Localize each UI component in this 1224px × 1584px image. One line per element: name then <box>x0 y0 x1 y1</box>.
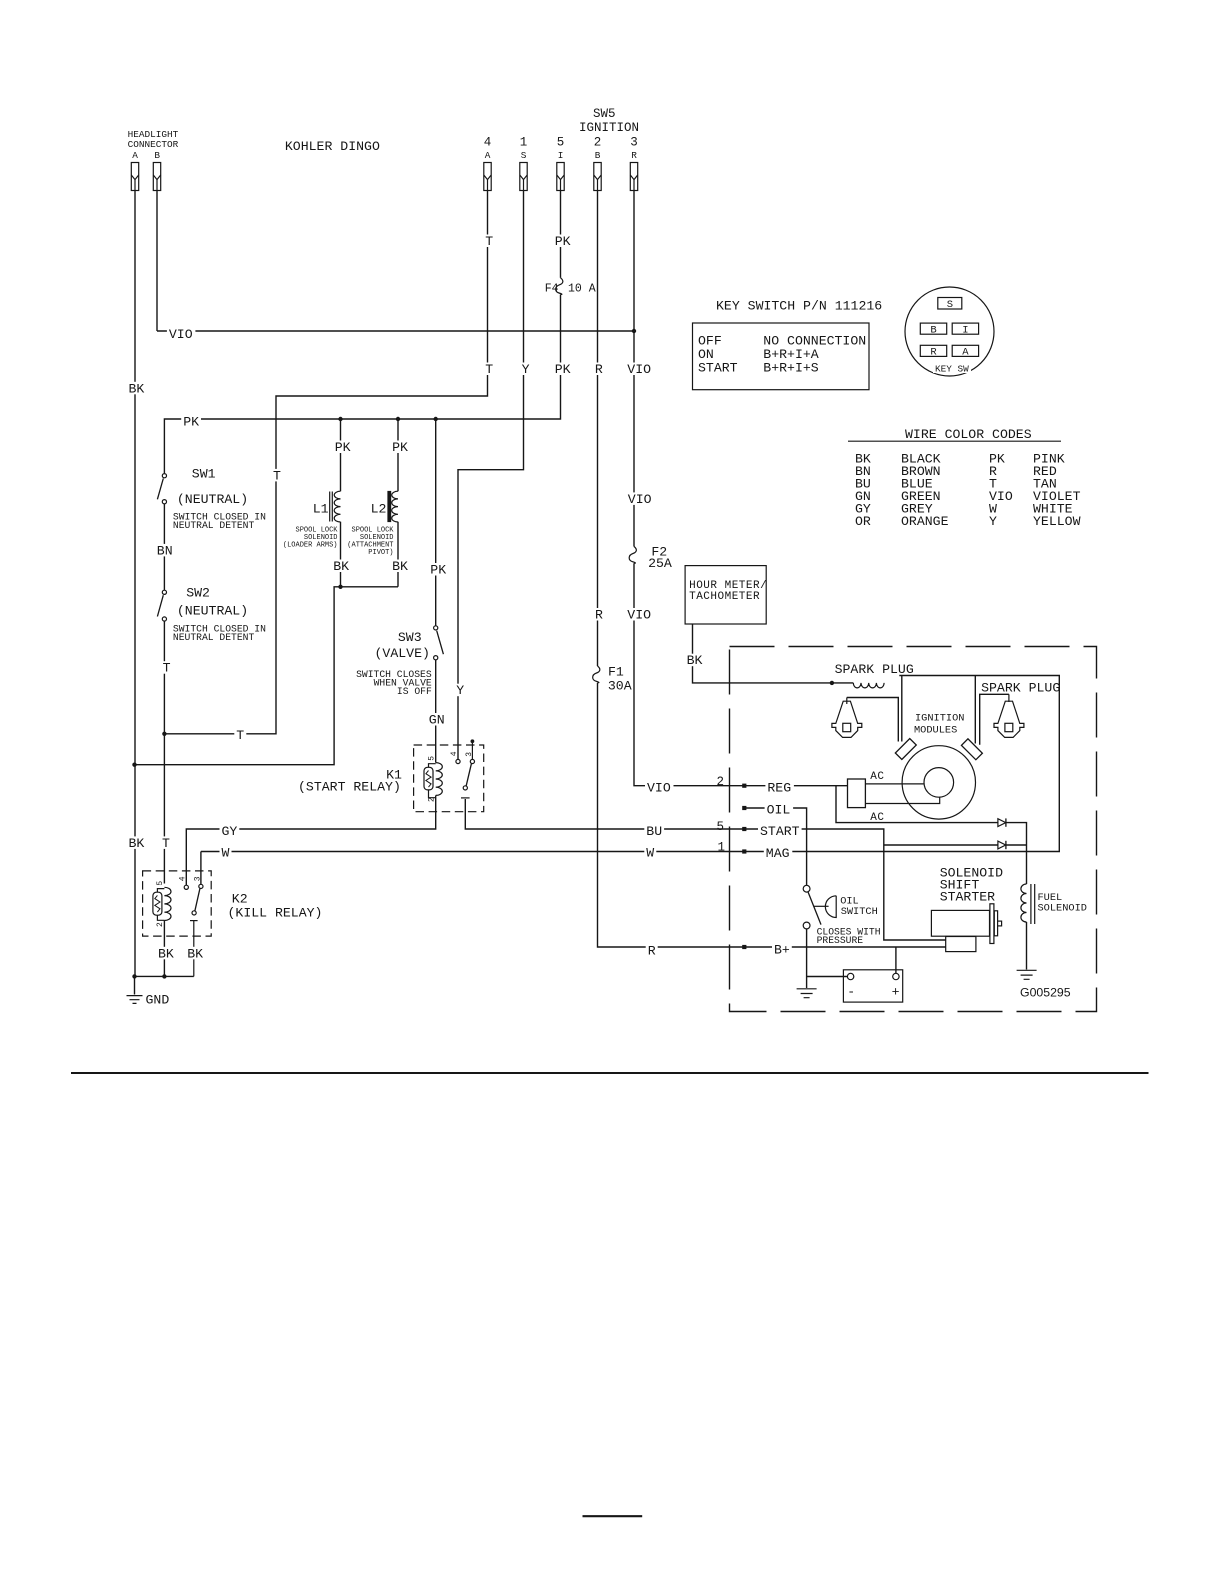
svg-text:T: T <box>485 362 493 377</box>
switch SW3 (valve) <box>434 626 444 660</box>
wire VIO horizontal to key pin 3 <box>157 330 634 332</box>
label T (K2 coil wire) <box>160 836 172 851</box>
wire BK from headlight pin A down to ground bus <box>134 191 136 977</box>
label VIO (pin3 wire lower) <box>625 608 654 623</box>
label PK (pin5 wire upper) <box>553 234 573 249</box>
svg-text:(VALVE): (VALVE) <box>375 646 430 661</box>
svg-text:MODULES: MODULES <box>914 725 957 737</box>
svg-text:Y: Y <box>456 683 464 698</box>
spark plug left symbol <box>832 698 862 738</box>
footer mark <box>583 1515 643 1517</box>
svg-text:BK: BK <box>158 946 174 961</box>
svg-text:BU: BU <box>646 824 662 839</box>
fuse F4 10A <box>556 278 563 295</box>
svg-text:OIL: OIL <box>767 802 791 817</box>
label PK (pk bus left) <box>181 415 201 430</box>
svg-text:VIO: VIO <box>647 781 671 796</box>
ground (battery side) <box>797 989 817 998</box>
svg-text:PK: PK <box>183 415 199 430</box>
svg-text:W: W <box>222 845 230 860</box>
svg-text:VIO: VIO <box>628 492 652 507</box>
relay K2 coil <box>153 887 171 920</box>
svg-text:R: R <box>595 608 603 623</box>
node BK junction on headlight wire <box>132 763 136 767</box>
label BK (L2 bottom) <box>390 559 410 574</box>
svg-text:5: 5 <box>156 881 165 886</box>
svg-text:S: S <box>521 150 527 161</box>
svg-text:PK: PK <box>430 563 446 578</box>
svg-text:S: S <box>947 299 953 311</box>
svg-text:B: B <box>154 150 160 161</box>
svg-text:YELLOW: YELLOW <box>1033 514 1081 529</box>
terminal pad START <box>742 827 746 831</box>
fuse F2 25A <box>629 547 636 564</box>
svg-text:AC: AC <box>870 812 884 824</box>
wire GY from K2 pin 4 to K1 coil <box>186 796 435 886</box>
switch SW2 (neutral) <box>157 590 166 621</box>
wire VIO from SW5 pin 3 <box>633 191 635 547</box>
wire PK from SW5 pin 5 (upper part) <box>560 191 562 278</box>
label T (SW2 lower wire) <box>161 661 173 676</box>
svg-text:3: 3 <box>465 752 474 757</box>
label START <box>758 824 802 839</box>
relay K1 (start relay) dashed box <box>414 745 484 812</box>
label T (row2) <box>483 362 495 377</box>
svg-text:+: + <box>892 985 900 1000</box>
label VIO (headlight B wire) <box>167 327 196 342</box>
svg-text:IS OFF: IS OFF <box>397 686 432 697</box>
key switch table box <box>693 323 870 390</box>
wire AC lower <box>865 797 939 803</box>
terminal pad B+ <box>742 945 746 949</box>
svg-text:R: R <box>631 150 637 161</box>
label W (left) <box>220 845 232 860</box>
label T (vertical T wire) <box>271 468 283 483</box>
connector pin 1/S (SW5) <box>520 163 527 191</box>
svg-text:NEUTRAL DETENT: NEUTRAL DETENT <box>173 520 255 531</box>
label BK (hour meter wire) <box>685 653 705 668</box>
svg-text:CONNECTOR: CONNECTOR <box>128 139 179 150</box>
relay K2 switch <box>184 884 203 976</box>
wire stub to ignition coil <box>832 682 853 684</box>
svg-text:W: W <box>646 846 654 861</box>
svg-text:VIO: VIO <box>627 608 651 623</box>
connector pin B (headlight) <box>153 163 160 191</box>
label BU <box>644 824 664 839</box>
fuse F1 30A <box>593 666 600 683</box>
svg-text:PK: PK <box>555 362 571 377</box>
svg-text:G005295: G005295 <box>1020 986 1071 1000</box>
label W (right) <box>644 846 656 861</box>
wire Y from SW5 pin 1 <box>458 191 524 760</box>
svg-text:(START RELAY): (START RELAY) <box>298 780 401 795</box>
svg-text:10 A: 10 A <box>568 283 596 296</box>
svg-text:R: R <box>930 347 937 359</box>
wire from headlight pin B down <box>156 191 158 332</box>
flywheel inner circle <box>924 768 954 798</box>
svg-text:(NEUTRAL): (NEUTRAL) <box>177 492 248 507</box>
relay K1 pin 1 terminal dot <box>471 739 475 743</box>
wire VIO below fuse F2 to REG <box>634 563 848 786</box>
svg-text:R: R <box>595 362 603 377</box>
connector pin 5/I (SW5) <box>557 163 564 191</box>
label T (pin4 wire upper) <box>483 234 495 249</box>
ground GND <box>127 996 143 1004</box>
svg-text:PK: PK <box>555 234 571 249</box>
svg-text:BK: BK <box>129 836 145 851</box>
node PK bus / L1 junction <box>338 417 342 421</box>
regulator block <box>848 779 866 808</box>
key terminal S <box>938 298 962 310</box>
svg-text:BN: BN <box>157 543 173 558</box>
wire battery positive <box>895 947 897 973</box>
svg-text:A: A <box>485 150 491 161</box>
svg-text:SW5: SW5 <box>593 107 616 121</box>
svg-text:5: 5 <box>717 820 725 834</box>
label B+ <box>772 943 792 958</box>
label OIL <box>765 802 794 817</box>
engine dashed boundary box <box>730 647 1097 1012</box>
label R (row2) <box>593 362 605 377</box>
switch SW1 (neutral) <box>157 474 166 504</box>
svg-text:KEY SWITCH P/N 111216: KEY SWITCH P/N 111216 <box>716 298 882 313</box>
key terminal I <box>952 323 978 334</box>
svg-text:25A: 25A <box>648 556 672 571</box>
svg-text:30A: 30A <box>608 679 632 694</box>
node PK bus / SW3 junction <box>434 417 438 421</box>
node T junction <box>162 732 166 736</box>
svg-text:SWITCH: SWITCH <box>841 906 878 918</box>
svg-text:BK: BK <box>687 653 703 668</box>
svg-text:5: 5 <box>428 756 437 761</box>
svg-text:GN: GN <box>429 713 445 728</box>
ignition kill coil <box>853 683 884 688</box>
label R (B+ wire) <box>646 944 658 959</box>
wire PK below fuse F4 to PK bus <box>164 295 560 474</box>
wire L1 leads <box>340 419 342 587</box>
svg-text:GY: GY <box>222 824 238 839</box>
wire oil switch to ground / battery minus <box>807 929 848 988</box>
wire spark plug left to module <box>847 698 899 742</box>
svg-text:START: START <box>760 824 800 839</box>
svg-text:BK: BK <box>129 381 145 396</box>
label VIO (REG wire) <box>645 781 674 796</box>
svg-text:PK: PK <box>392 440 408 455</box>
diode D1 <box>998 818 1006 826</box>
svg-text:B+R+I+S: B+R+I+S <box>763 361 818 376</box>
terminal pad OIL <box>742 806 746 810</box>
ignition module right (diamond) <box>961 739 982 760</box>
svg-text:5: 5 <box>557 136 565 150</box>
svg-text:GND: GND <box>146 993 170 1008</box>
label VIO (pin3 wire mid) <box>626 492 655 507</box>
svg-text:BK: BK <box>187 946 203 961</box>
svg-text:IGNITION: IGNITION <box>579 121 639 135</box>
svg-text:I: I <box>962 324 968 336</box>
label PK (row2) <box>553 362 573 377</box>
label REG <box>765 781 794 796</box>
starter motor body <box>931 904 1001 952</box>
connector pin 4/A (SW5) <box>484 163 491 191</box>
ground (fuel solenoid) <box>1017 970 1037 979</box>
svg-text:F4: F4 <box>545 283 559 296</box>
relay K1 coil <box>424 763 442 798</box>
wire BK horizontal to spool solenoid bus <box>135 587 399 765</box>
svg-text:T: T <box>236 728 244 743</box>
svg-text:MAG: MAG <box>766 846 790 861</box>
wire BU / START from K1 common to starter solenoid <box>465 799 945 940</box>
wire fuel solenoid to ground <box>1026 922 1028 970</box>
svg-text:A: A <box>962 347 969 359</box>
svg-text:KEY SW: KEY SW <box>935 364 969 375</box>
svg-text:KOHLER DINGO: KOHLER DINGO <box>285 139 380 154</box>
relay K2 (kill relay) dashed box <box>143 871 212 936</box>
svg-text:SPARK PLUG: SPARK PLUG <box>981 681 1060 696</box>
svg-text:AC: AC <box>870 771 884 783</box>
node BK bus / L1 junction <box>338 585 342 589</box>
svg-text:TACHOMETER: TACHOMETER <box>689 591 760 603</box>
svg-text:SW2: SW2 <box>186 586 210 601</box>
svg-text:4: 4 <box>179 876 188 881</box>
svg-text:BK: BK <box>392 559 408 574</box>
svg-text:2: 2 <box>594 136 602 150</box>
node ground bus K2 coil <box>162 974 166 978</box>
svg-text:4: 4 <box>484 136 492 150</box>
terminal pad MAG <box>742 849 746 853</box>
battery <box>843 970 902 1002</box>
label PK (L2 top) <box>390 440 410 455</box>
key terminal A <box>952 345 978 356</box>
wire R from SW5 pin 2 <box>597 191 599 667</box>
wire R below fuse F1 to B+ <box>598 683 946 947</box>
label PK (SW3 wire) <box>428 563 448 578</box>
svg-text:L2: L2 <box>371 501 387 516</box>
svg-text:3: 3 <box>630 136 638 150</box>
label PK (L1 top) <box>333 440 353 455</box>
svg-text:VIO: VIO <box>627 362 651 377</box>
label GY <box>220 824 240 839</box>
svg-text:B+: B+ <box>774 943 790 958</box>
svg-text:BK: BK <box>333 559 349 574</box>
fuel solenoid coil <box>1021 884 1035 924</box>
svg-text:SW1: SW1 <box>192 467 216 482</box>
node PK bus / L2 junction <box>396 417 400 421</box>
wire REG branch down to diode 1 <box>836 786 1027 884</box>
svg-text:PIVOT): PIVOT) <box>368 549 393 557</box>
node spark coil junction <box>830 681 834 685</box>
wire SW3 vertical (PK/GN) <box>435 419 437 763</box>
svg-text:3: 3 <box>193 876 202 881</box>
wire spark plug right to module <box>980 694 1009 745</box>
svg-text:T: T <box>163 661 171 676</box>
wire ground bus <box>135 976 194 994</box>
svg-text:B: B <box>595 150 601 161</box>
connector pin 3/R (SW5) <box>630 163 637 191</box>
svg-text:R: R <box>648 944 656 959</box>
label KEY SW <box>933 363 971 375</box>
svg-text:T: T <box>485 234 493 249</box>
label Y (K1 wire) <box>454 683 466 698</box>
wire SW1/SW2 chain segments <box>163 504 165 977</box>
svg-text:(NEUTRAL): (NEUTRAL) <box>177 604 248 619</box>
label MAG <box>764 846 793 861</box>
svg-text:HOUR METER/: HOUR METER/ <box>689 580 767 592</box>
svg-text:PK: PK <box>335 440 351 455</box>
solenoid L1 spool lock (loader arms) <box>330 491 341 522</box>
diode D2 <box>998 841 1006 849</box>
wire W / MAG from K2 pin 3 to ignition modules <box>201 676 1059 885</box>
svg-text:VIO: VIO <box>169 327 193 342</box>
svg-text:T: T <box>273 468 281 483</box>
solenoid L2 spool lock (attachment pivot) <box>388 491 398 522</box>
svg-text:I: I <box>558 150 564 161</box>
key terminal R <box>920 345 946 356</box>
svg-text:1: 1 <box>718 841 726 855</box>
svg-text:-: - <box>847 985 855 1000</box>
label R (pin2 wire mid) <box>593 608 605 623</box>
svg-text:(LOADER ARMS): (LOADER ARMS) <box>283 542 338 550</box>
svg-text:T: T <box>162 836 170 851</box>
svg-text:Y: Y <box>522 362 530 377</box>
svg-text:F1: F1 <box>608 665 624 680</box>
svg-text:REG: REG <box>767 781 791 796</box>
label T (horizontal T wire) <box>234 728 246 743</box>
flywheel outer circle <box>902 746 975 819</box>
svg-text:Y: Y <box>989 514 997 529</box>
wire ignition module box left leg <box>901 676 903 742</box>
label BK (headlight A wire upper) <box>127 381 147 396</box>
oil pressure switch <box>803 885 836 929</box>
label BN (SW1-SW2 wire) <box>155 543 175 558</box>
label VIO (row2) <box>625 362 654 377</box>
wire T from SW5 pin 4 <box>164 191 487 734</box>
svg-text:WIRE COLOR CODES: WIRE COLOR CODES <box>905 427 1032 442</box>
connector pin A (headlight) <box>131 163 138 191</box>
label BK (K2 switch bottom) <box>185 946 205 961</box>
label BK (K2 coil bottom) <box>156 946 176 961</box>
svg-text:2: 2 <box>717 775 725 789</box>
node VIO/pin3 junction <box>632 329 636 333</box>
svg-text:2: 2 <box>428 797 437 802</box>
svg-text:4: 4 <box>450 751 459 756</box>
svg-text:STARTER: STARTER <box>940 889 995 904</box>
svg-text:1: 1 <box>520 136 528 150</box>
svg-text:B: B <box>930 324 936 336</box>
terminal pad REG <box>742 784 746 788</box>
svg-text:PRESSURE: PRESSURE <box>817 935 864 946</box>
wire L2 leads <box>397 419 399 587</box>
ignition module left (diamond) <box>895 739 916 760</box>
node ground bus left <box>132 974 136 978</box>
wire START diode branch (diode 2) <box>884 844 1027 846</box>
wire AC upper <box>865 783 924 785</box>
svg-text:SOLENOID: SOLENOID <box>1038 903 1087 915</box>
label BK (headlight A wire lower) <box>127 836 147 851</box>
wire BK hour meter to spark coil <box>693 624 832 683</box>
key switch circle KEY SW <box>905 287 994 376</box>
wire OIL to oil switch <box>744 808 806 885</box>
rule separator <box>71 1072 1149 1074</box>
svg-text:START: START <box>698 361 738 376</box>
svg-text:SPARK PLUG: SPARK PLUG <box>835 662 914 677</box>
svg-text:NEUTRAL DETENT: NEUTRAL DETENT <box>173 632 255 643</box>
label Y (row2) <box>520 362 532 377</box>
svg-text:2: 2 <box>156 922 165 927</box>
svg-text:OR: OR <box>855 514 871 529</box>
svg-text:ORANGE: ORANGE <box>901 514 949 529</box>
svg-text:SW3: SW3 <box>398 630 422 645</box>
svg-text:L1: L1 <box>313 501 329 516</box>
label BK (L1 bottom) <box>331 559 351 574</box>
spark plug right symbol <box>994 694 1024 737</box>
svg-text:IGNITION: IGNITION <box>915 712 964 724</box>
wire ignition module box inner leg <box>974 676 976 744</box>
relay K1 switch <box>456 743 475 798</box>
key terminal B <box>920 323 946 334</box>
label GN (SW3 lower wire) <box>427 713 447 728</box>
connector pin 2/B (SW5) <box>594 163 601 191</box>
svg-text:(KILL RELAY): (KILL RELAY) <box>228 905 323 920</box>
hour meter / tachometer box <box>685 566 766 624</box>
svg-text:A: A <box>132 150 138 161</box>
